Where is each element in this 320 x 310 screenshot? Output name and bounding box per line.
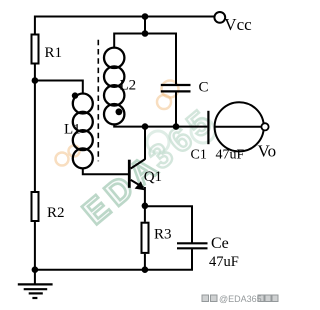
watermark EDA365 logo (decorative) <box>56 81 224 233</box>
wire left trunk (R1/R2 branch) <box>34 16 36 270</box>
svg-text:L2: L2 <box>120 77 137 93</box>
wire output row L2 to C1 <box>114 124 207 127</box>
junction: left trunk / ground rail <box>32 266 39 273</box>
credit text bottom right <box>202 294 278 304</box>
junction: output row / C bottom lead <box>173 123 180 130</box>
ground <box>18 284 53 298</box>
junction: output row / center trunk <box>142 123 149 130</box>
resistor R1 <box>32 35 39 64</box>
junction: R3 bottom / ground rail <box>142 266 149 273</box>
Vcc power terminal <box>214 12 225 23</box>
svg-text:Vo: Vo <box>258 142 277 161</box>
L2 phase dot <box>116 108 123 115</box>
Vo output terminal <box>261 123 268 130</box>
wire C top lead <box>175 33 177 85</box>
svg-text:C: C <box>199 79 209 95</box>
wire emitter row to Ce <box>145 206 192 242</box>
svg-text:R1: R1 <box>45 45 63 61</box>
wire emitter lead <box>144 187 146 222</box>
capacitor C1 plate <box>207 111 209 144</box>
wire output row down to collector <box>144 127 146 160</box>
junction: L2 top / center trunk <box>142 30 149 37</box>
junction: left trunk / L1 top <box>32 77 39 84</box>
wire inside output port <box>215 126 262 128</box>
svg-text:Vcc: Vcc <box>224 15 252 34</box>
wire top Vcc rail <box>34 16 214 18</box>
svg-text:C1: C1 <box>191 147 207 162</box>
wire L1 top branch <box>34 81 83 95</box>
wire C bottom lead <box>175 92 177 126</box>
transistor Q1 <box>128 159 145 190</box>
junction: emitter / R3 top <box>142 203 149 210</box>
svg-text:@EDA365: @EDA365 <box>219 294 262 304</box>
wire L2 top branch <box>114 34 176 49</box>
wire base lead from L1 <box>83 168 129 175</box>
svg-text:L1: L1 <box>64 122 81 138</box>
resistor R2 <box>32 192 39 221</box>
svg-text:R2: R2 <box>47 205 65 221</box>
svg-text:Q1: Q1 <box>144 169 162 185</box>
L1 phase dot <box>72 92 78 98</box>
wire R3 bottom stub <box>144 254 146 270</box>
capacitor C <box>161 85 191 91</box>
resistor R3 <box>142 223 149 253</box>
wire ground stub <box>34 270 36 284</box>
wire Vcc rail stub to L2 top row <box>144 16 146 34</box>
transformer core dashed line <box>97 40 99 162</box>
junction: Vcc rail / center trunk <box>142 13 149 20</box>
svg-text:47uF: 47uF <box>209 254 239 270</box>
wire bottom ground rail <box>34 249 192 270</box>
output port circle <box>215 102 264 151</box>
inductor L2 <box>104 48 124 125</box>
svg-text:R3: R3 <box>154 227 172 243</box>
capacitor Ce <box>177 243 208 248</box>
svg-text:Ce: Ce <box>211 235 229 252</box>
inductor L1 <box>73 94 93 169</box>
